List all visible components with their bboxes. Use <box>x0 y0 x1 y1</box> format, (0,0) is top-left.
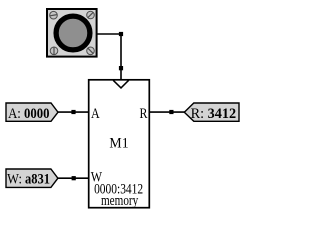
junction A wire <box>71 110 75 114</box>
input tag A <box>6 103 58 122</box>
junction on clock wire <box>119 66 123 70</box>
wire button to corner <box>97 33 122 35</box>
clock chevron <box>113 80 129 88</box>
junction R wire <box>169 110 173 114</box>
screw top-left <box>50 11 58 19</box>
svg-text:memory: memory <box>101 191 139 208</box>
wire R pin to tag <box>149 111 185 113</box>
junction at corner <box>119 32 123 36</box>
svg-text:A: 0000: A: 0000 <box>8 106 49 122</box>
memory M1 body <box>89 80 150 208</box>
wire W tag to pin <box>57 177 88 179</box>
wire corner down <box>120 34 122 68</box>
wire to clock pin <box>120 68 122 80</box>
input tag W <box>6 169 58 187</box>
junction W wire <box>72 176 76 180</box>
svg-text:W: a831: W: a831 <box>7 171 50 187</box>
wire A tag to pin <box>58 111 89 113</box>
svg-text:M1: M1 <box>109 135 128 152</box>
button cap <box>56 16 90 50</box>
svg-text:A: A <box>91 105 100 122</box>
screw bottom-left <box>50 47 58 55</box>
output tag R <box>184 103 239 122</box>
screw top-right <box>87 11 95 19</box>
svg-text:R: R <box>139 105 148 122</box>
screw bottom-right <box>87 47 95 55</box>
svg-text:R: 3412: R: 3412 <box>191 105 236 121</box>
push button (clock source) <box>47 9 97 57</box>
